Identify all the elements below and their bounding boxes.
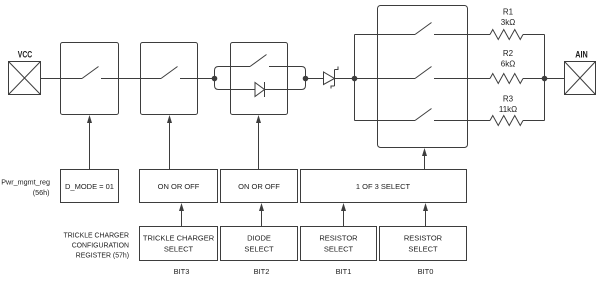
register cell 1 OF 3 SELECT (301, 170, 467, 203)
svg-text:R2: R2 (503, 49, 514, 58)
wire join vertical (544, 35, 546, 121)
wire branch vertical (354, 35, 356, 121)
svg-text:1 OF 3 SELECT: 1 OF 3 SELECT (356, 182, 411, 191)
wire lower branch out of S3 (265, 79, 306, 90)
wire row2 out (434, 78, 490, 80)
wire S2 to node A (198, 78, 215, 80)
svg-text:R1: R1 (503, 8, 514, 17)
arrow bit0 (423, 203, 428, 226)
svg-text:RESISTOR: RESISTOR (319, 234, 358, 243)
wire row1 out (434, 34, 490, 36)
arrow bit1 (341, 203, 346, 226)
wire S1 to S2 (119, 78, 141, 80)
node B (303, 76, 308, 81)
svg-text:R3: R3 (503, 95, 514, 104)
box S3 (diode / switch pair) (231, 43, 288, 115)
svg-text:SELECT: SELECT (324, 245, 354, 254)
svg-text:BIT2: BIT2 (254, 267, 270, 276)
svg-text:Pwr_mgmt_reg: Pwr_mgmt_reg (1, 178, 50, 187)
switch S1 (trickle charger enable) (61, 43, 119, 115)
wire node D to AIN (545, 78, 565, 80)
select box RESISTOR SELECT (bit0) (380, 227, 467, 261)
wire node B to D2 (306, 78, 324, 80)
wire lower branch into S3 (215, 79, 256, 90)
switch S4a arm (415, 23, 432, 35)
wire R3 to join (523, 120, 545, 122)
svg-text:SELECT: SELECT (408, 245, 438, 254)
arrowhead into S3 (256, 115, 261, 123)
node D (542, 76, 547, 81)
svg-text:6kΩ: 6kΩ (501, 60, 515, 69)
svg-text:ON OR OFF: ON OR OFF (238, 182, 280, 191)
svg-text:TRICKLE CHARGER: TRICKLE CHARGER (64, 233, 129, 240)
wire row2 into S4 (355, 78, 416, 80)
svg-text:BIT1: BIT1 (336, 267, 352, 276)
trickle charger register label (64, 233, 130, 260)
svg-text:3kΩ: 3kΩ (501, 18, 515, 27)
svg-text:SELECT: SELECT (164, 245, 194, 254)
svg-text:D_MODE = 01: D_MODE = 01 (65, 182, 114, 191)
select box RESISTOR SELECT (bit1) (301, 227, 377, 261)
svg-text:CONFIGURATION: CONFIGURATION (72, 243, 129, 250)
register cell ON OR OFF (bit2) (221, 170, 298, 203)
R3 value labels (499, 95, 517, 115)
switch S2 (141, 43, 198, 115)
wire VCC to S1 (41, 78, 61, 80)
switch S3 arm (250, 55, 267, 67)
wire bit2 cell to S3 (258, 123, 260, 170)
svg-text:SELECT: SELECT (244, 245, 274, 254)
D_MODE register box (61, 170, 119, 203)
switch S4b arm (415, 67, 432, 79)
svg-text:(56h): (56h) (33, 188, 50, 197)
wire upper branch out of S3 (269, 67, 306, 79)
arrowhead into S1 (87, 115, 92, 123)
wire select cell to S4 (424, 156, 426, 170)
arrowhead into S2 (167, 115, 172, 123)
svg-text:REGISTER (57h): REGISTER (57h) (76, 252, 129, 259)
arrow bit3 (179, 203, 184, 226)
VCC port (9, 62, 41, 95)
node A (212, 76, 217, 81)
Pwr_mgmt_reg label (1, 178, 50, 198)
arrow bit2 (259, 203, 264, 226)
wire D2 to node C (335, 78, 355, 80)
resistor R2 (490, 74, 523, 84)
wire row3 out (434, 120, 490, 122)
select box DIODE SELECT (221, 227, 298, 261)
R2 value labels (501, 49, 515, 69)
wire R2 to join (523, 78, 545, 80)
switch S4c arm (415, 109, 432, 121)
svg-text:DIODE: DIODE (247, 234, 271, 243)
R1 value labels (501, 8, 515, 28)
wire R1 to join (523, 34, 545, 36)
AIN port (565, 62, 596, 95)
svg-text:ON OR OFF: ON OR OFF (158, 182, 200, 191)
diode D1 (255, 82, 265, 97)
svg-text:RESISTOR: RESISTOR (404, 234, 443, 243)
wire upper branch into S3 (215, 67, 251, 79)
svg-text:BIT0: BIT0 (418, 267, 434, 276)
register cell ON OR OFF (bit3) (140, 170, 218, 203)
bit labels (174, 267, 434, 276)
svg-text:11kΩ: 11kΩ (499, 105, 517, 114)
wire row3 into S4 (355, 120, 416, 122)
arrowhead into S4 (422, 148, 427, 156)
svg-text:TRICKLE CHARGER: TRICKLE CHARGER (143, 234, 215, 243)
diode D2 (schottky) (324, 67, 339, 89)
resistor R1 (490, 30, 523, 40)
wire row1 into S4 (355, 34, 416, 36)
svg-text:AIN: AIN (575, 50, 588, 60)
svg-text:BIT3: BIT3 (174, 267, 190, 276)
resistor select box S4 (378, 6, 468, 148)
wire D_MODE to S1 (89, 123, 91, 170)
select box TRICKLE CHARGER SELECT (140, 227, 218, 261)
svg-text:VCC: VCC (18, 50, 33, 60)
node C (352, 76, 357, 81)
resistor R3 (490, 116, 523, 126)
wire bit3 cell to S2 (169, 123, 171, 170)
